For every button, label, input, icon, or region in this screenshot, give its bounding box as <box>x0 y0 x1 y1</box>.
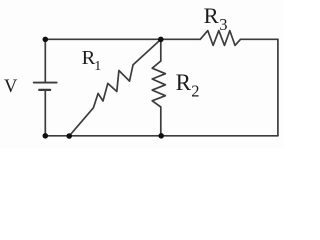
wire R2 top lead <box>160 39 162 61</box>
node dot top-left corner <box>43 37 49 43</box>
wire left above battery <box>44 39 46 82</box>
svg-text:1: 1 <box>94 59 101 74</box>
resistor R2 <box>152 61 165 107</box>
svg-text:R: R <box>176 70 192 95</box>
wire top right segment <box>241 38 278 40</box>
wire bottom <box>45 135 278 137</box>
wire top left segment <box>45 38 200 40</box>
resistor R3 <box>200 31 240 46</box>
node dot R2 bottom <box>158 133 164 139</box>
node dot R1 bottom <box>66 133 72 139</box>
wire R2 bottom lead <box>160 107 162 136</box>
wire right side <box>277 39 279 135</box>
battery V long plate <box>34 82 57 84</box>
resistor R1 diagonal with zigzag <box>69 39 161 136</box>
svg-text:3: 3 <box>219 15 227 34</box>
node dot top junction <box>158 37 164 43</box>
wire left below battery <box>44 90 46 136</box>
svg-text:V: V <box>4 77 18 97</box>
node dot bottom-left corner <box>43 133 49 139</box>
svg-text:R: R <box>204 3 219 28</box>
svg-text:2: 2 <box>191 82 199 101</box>
battery V short plate <box>39 89 50 91</box>
